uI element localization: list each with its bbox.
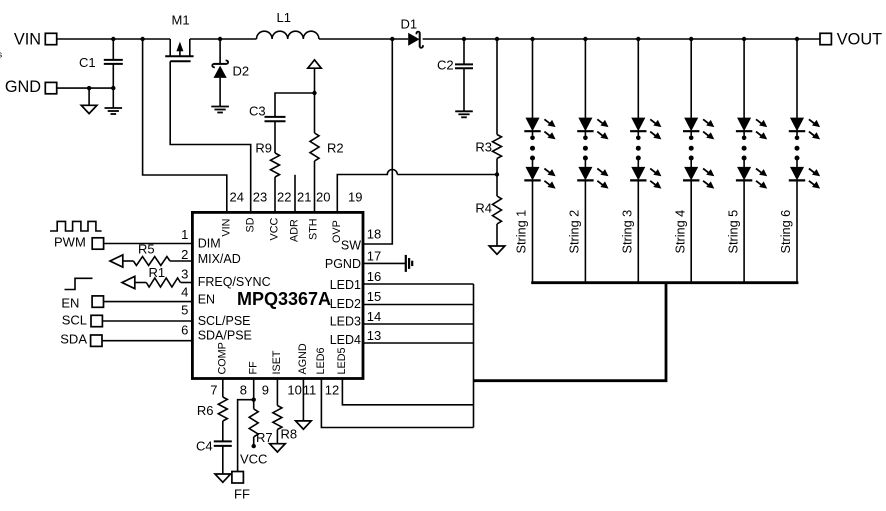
- capacitor C3: [249, 104, 286, 154]
- svg-text:3: 3: [181, 267, 188, 282]
- svg-text:R2: R2: [327, 141, 344, 156]
- svg-text:VIN: VIN: [221, 219, 233, 237]
- svg-text:LED5: LED5: [336, 347, 348, 374]
- wire SDA to pin6: [102, 340, 192, 342]
- earth ground below D2: [211, 107, 229, 113]
- svg-text:LED4: LED4: [330, 333, 361, 347]
- svg-text:SDA: SDA: [60, 332, 87, 347]
- svg-text:M1: M1: [172, 13, 190, 28]
- ground (open triangle) at GND terminal: [81, 88, 97, 114]
- node GND-C1: [111, 86, 115, 90]
- svg-text:String 3: String 3: [621, 210, 635, 254]
- svg-text:MIX/AD: MIX/AD: [198, 252, 241, 266]
- svg-text:4: 4: [181, 285, 188, 300]
- wire LED bus vertical: [473, 284, 475, 428]
- node VIN sense: [140, 37, 144, 41]
- arrow connector pin3: [122, 276, 135, 288]
- svg-text:MPQ3367A: MPQ3367A: [237, 289, 331, 309]
- terminal VOUT: [820, 33, 831, 44]
- resistor R1: [135, 265, 193, 287]
- wire FF pin8: [238, 379, 254, 472]
- svg-text:AGND: AGND: [297, 343, 309, 374]
- arrow connector pin2: [110, 255, 123, 267]
- svg-text:R4: R4: [475, 201, 492, 216]
- wire VIN rail left: [57, 38, 171, 40]
- svg-text:2: 2: [181, 247, 188, 262]
- LED string 2: [577, 39, 608, 283]
- capacitor C2: [437, 39, 473, 111]
- VCC supply arrow: [308, 60, 321, 133]
- svg-text:COMP: COMP: [216, 342, 228, 374]
- svg-text:R3: R3: [475, 140, 492, 155]
- svg-text:12: 12: [325, 383, 339, 398]
- svg-text:C4: C4: [196, 439, 213, 454]
- svg-text:9: 9: [262, 383, 269, 398]
- ground below C4: [215, 474, 231, 482]
- IC U1 MPQ3367A: [192, 212, 363, 378]
- svg-text:R5: R5: [138, 242, 155, 257]
- svg-text:17: 17: [367, 248, 381, 263]
- svg-text:11: 11: [303, 383, 317, 398]
- node GND-arrow: [87, 86, 91, 90]
- svg-text:String 6: String 6: [779, 210, 793, 254]
- svg-text:21: 21: [297, 189, 311, 204]
- svg-text:5: 5: [181, 303, 188, 318]
- node string4: [689, 37, 693, 41]
- node string5: [742, 37, 746, 41]
- svg-text:ISET: ISET: [271, 350, 283, 374]
- wire LED1 pin16: [363, 283, 474, 285]
- svg-text:PWM: PWM: [54, 234, 86, 249]
- svg-text:14: 14: [367, 309, 381, 324]
- ground below R4: [489, 246, 505, 254]
- svg-text:VCC: VCC: [269, 218, 281, 241]
- node VCC-C3: [312, 91, 316, 95]
- svg-text:STH: STH: [308, 218, 320, 240]
- svg-text:L1: L1: [277, 10, 291, 25]
- node string6: [795, 37, 799, 41]
- earth ground below C2: [455, 111, 473, 117]
- svg-text:8: 8: [240, 383, 247, 398]
- svg-text:String 4: String 4: [673, 210, 687, 254]
- wire OVP pin19 to R3/R4 node with hop: [337, 170, 497, 213]
- LED string 3: [630, 39, 661, 283]
- svg-text:EN: EN: [61, 296, 79, 311]
- LED string 6: [789, 39, 820, 283]
- diode D2: [212, 39, 249, 107]
- resistor R5: [123, 242, 193, 266]
- svg-text:FF: FF: [234, 486, 250, 501]
- svg-text:String 1: String 1: [515, 210, 529, 254]
- wire PWM to DIM pin1: [104, 243, 193, 245]
- svg-text:D1: D1: [401, 16, 418, 31]
- svg-text:EN: EN: [198, 293, 215, 307]
- ground below R8: [270, 444, 286, 452]
- wire L1 to D1: [319, 38, 408, 40]
- svg-text:s: s: [0, 49, 2, 60]
- resistor R6: [197, 379, 227, 442]
- node M1-D2: [218, 37, 222, 41]
- svg-text:C2: C2: [437, 58, 454, 73]
- svg-text:FF: FF: [247, 361, 259, 375]
- svg-text:18: 18: [367, 227, 381, 242]
- svg-text:10: 10: [287, 383, 301, 398]
- wire VCC node to C3: [275, 93, 315, 117]
- svg-text:SCL: SCL: [62, 313, 87, 328]
- svg-text:SDA/PSE: SDA/PSE: [198, 329, 252, 343]
- transistor M1: [165, 13, 193, 62]
- svg-text:16: 16: [367, 269, 381, 284]
- node C2: [462, 37, 466, 41]
- svg-text:ADR: ADR: [289, 219, 301, 242]
- PWM waveform icon: [50, 221, 102, 231]
- node VCC net: [252, 444, 256, 448]
- diode D1: [401, 16, 423, 47]
- wire D1 to VOUT: [423, 38, 820, 40]
- wire rail M1 to L1: [190, 38, 257, 40]
- svg-text:6: 6: [181, 322, 188, 337]
- svg-text:1: 1: [181, 227, 188, 242]
- svg-text:VOUT: VOUT: [837, 31, 882, 49]
- svg-text:19: 19: [348, 189, 362, 204]
- svg-text:PGND: PGND: [325, 257, 361, 271]
- svg-text:FREQ/SYNC: FREQ/SYNC: [198, 275, 271, 289]
- svg-text:R7: R7: [256, 430, 273, 445]
- wire LED2 pin15: [363, 304, 474, 306]
- wire LED6 pin11: [321, 379, 473, 428]
- wire PGND pin17: [363, 262, 406, 264]
- wire LED4 pin13: [363, 342, 474, 344]
- LED string 5: [736, 39, 767, 283]
- capacitor C1: [79, 39, 123, 88]
- resistor R3: [475, 39, 501, 175]
- wire bus return to IC: [474, 283, 667, 381]
- LED string 4: [683, 39, 714, 283]
- node R3 top: [495, 37, 499, 41]
- svg-text:DIM: DIM: [198, 236, 221, 250]
- svg-text:LED6: LED6: [315, 347, 327, 374]
- svg-text:VIN: VIN: [14, 31, 41, 49]
- svg-text:24: 24: [230, 189, 244, 204]
- wire LED common bus: [531, 281, 798, 284]
- wire M1 gate to pin 23: [170, 61, 251, 212]
- svg-text:String 2: String 2: [568, 210, 582, 254]
- wire EN to pin4: [104, 301, 193, 303]
- svg-text:String 5: String 5: [726, 210, 740, 254]
- svg-text:C1: C1: [79, 55, 96, 70]
- node string2: [583, 37, 587, 41]
- wire SCL to pin5: [102, 320, 192, 322]
- svg-text:SW: SW: [341, 239, 361, 253]
- svg-text:SCL/PSE: SCL/PSE: [198, 314, 251, 328]
- svg-text:C3: C3: [249, 104, 266, 119]
- node VIN-C1: [111, 37, 115, 41]
- earth ground below C1: [105, 88, 123, 114]
- node FF: [252, 398, 256, 402]
- svg-text:LED3: LED3: [330, 315, 361, 329]
- power ground at PGND: [406, 255, 412, 272]
- svg-text:SD: SD: [244, 217, 256, 232]
- svg-text:LED2: LED2: [330, 297, 361, 311]
- svg-text:GND: GND: [5, 78, 41, 96]
- inductor L1: [257, 31, 319, 39]
- wire GND: [57, 87, 114, 89]
- rising edge icon: [65, 278, 93, 289]
- resistor R7: [249, 409, 272, 446]
- wire VIN sense to pin 24: [143, 39, 227, 212]
- AGND pin10 stub and ground: [296, 379, 312, 430]
- wire LED3 pin14: [363, 323, 474, 325]
- terminal FF: [232, 472, 244, 484]
- wire SW pin18 to switch node: [363, 39, 392, 244]
- svg-text:R1: R1: [149, 265, 166, 280]
- svg-text:20: 20: [316, 189, 330, 204]
- svg-text:23: 23: [253, 189, 267, 204]
- svg-text:7: 7: [210, 383, 217, 398]
- svg-text:R9: R9: [255, 141, 272, 156]
- svg-text:R8: R8: [281, 427, 298, 442]
- resistor R4: [475, 175, 501, 247]
- resistor R9: [255, 141, 279, 213]
- svg-text:D2: D2: [233, 64, 250, 79]
- svg-text:LED1: LED1: [330, 278, 361, 292]
- svg-text:OVP: OVP: [331, 220, 343, 243]
- node string3: [636, 37, 640, 41]
- capacitor C4: [196, 439, 232, 475]
- svg-text:13: 13: [367, 328, 381, 343]
- node string1: [530, 37, 534, 41]
- resistor R2: [310, 133, 344, 212]
- svg-text:R6: R6: [197, 403, 214, 418]
- LED string 1: [524, 39, 555, 283]
- node R3-R4-OVP: [495, 172, 499, 176]
- svg-text:VCC: VCC: [240, 451, 267, 466]
- svg-text:15: 15: [367, 289, 381, 304]
- svg-text:22: 22: [277, 189, 291, 204]
- wire LED5 pin12: [342, 379, 473, 405]
- node SW: [390, 37, 394, 41]
- stub ADR pin21: [294, 175, 296, 213]
- resistor R8: [273, 379, 297, 444]
